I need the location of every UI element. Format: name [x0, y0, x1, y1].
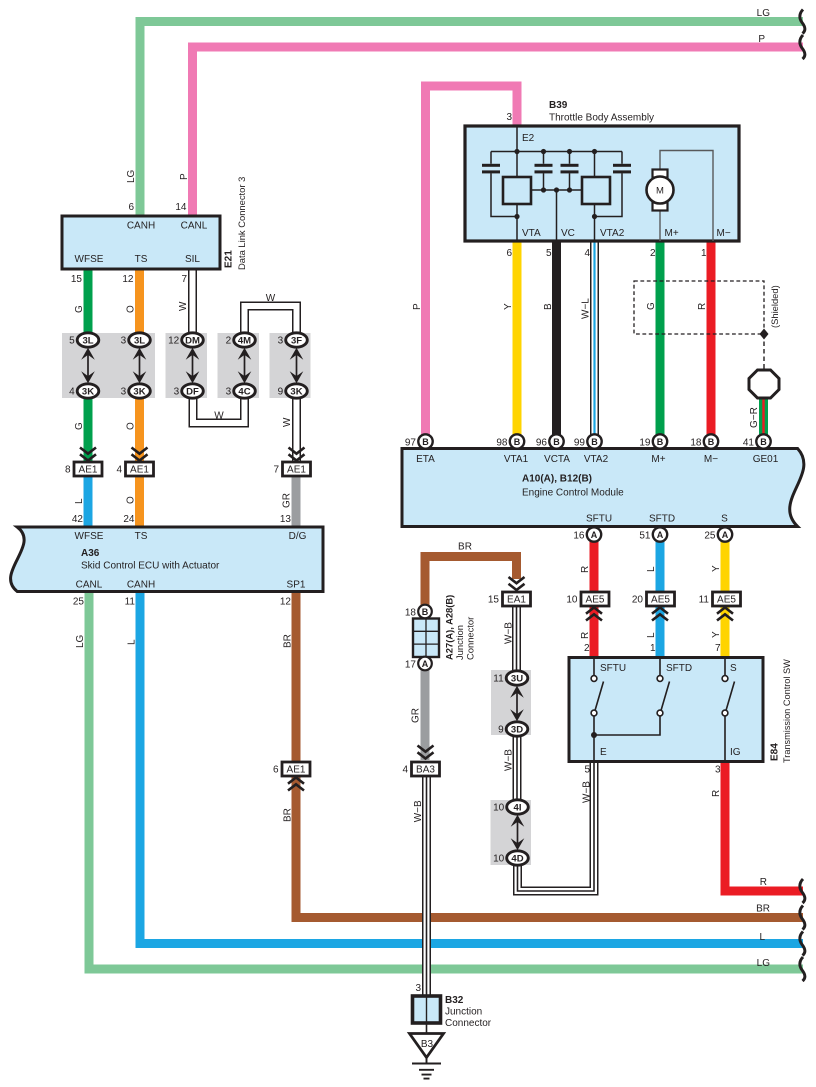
svg-text:AE5: AE5 [586, 595, 605, 606]
connector 5 3L [77, 333, 99, 347]
svg-text:6: 6 [273, 765, 279, 776]
wire L ECM SFTD to AE5 [656, 534, 665, 593]
svg-text:R: R [580, 566, 591, 573]
break mark LG top [800, 10, 805, 34]
svg-text:12: 12 [168, 336, 180, 347]
svg-text:TS: TS [135, 531, 148, 542]
svg-text:SP1: SP1 [287, 580, 306, 591]
svg-text:Throttle Body Assembly: Throttle Body Assembly [549, 113, 654, 124]
svg-text:18: 18 [405, 608, 417, 619]
wire L A36 CANH to right edge [140, 591, 803, 944]
node dot E [593, 735, 595, 761]
svg-text:M+: M+ [651, 454, 665, 465]
connector 3 3F [286, 333, 308, 347]
svg-text:Y: Y [711, 631, 722, 638]
svg-text:3K: 3K [133, 386, 145, 397]
svg-text:M−: M− [704, 454, 718, 465]
internal wire E2 bus [491, 126, 622, 241]
wire W 3K to AE1 [292, 391, 301, 461]
pair arrows 3L-3K [81, 348, 95, 384]
svg-text:1: 1 [701, 248, 707, 259]
wire Y ECM S to AE5 [721, 534, 730, 593]
svg-text:VTA1: VTA1 [504, 454, 529, 465]
wire W E21 SIL to DM [188, 267, 197, 340]
svg-text:LG: LG [757, 958, 771, 969]
wire R ECM SFTU to AE5 [590, 534, 599, 593]
svg-text:Connector: Connector [445, 1018, 492, 1029]
svg-text:LG: LG [757, 8, 771, 19]
connector 3 3L [129, 333, 151, 347]
connector 10 AE5 [581, 592, 609, 606]
svg-text:4C: 4C [238, 386, 250, 397]
svg-text:2: 2 [650, 248, 656, 259]
ECU A36 Skid Control ECU with Actuator [11, 527, 323, 592]
svg-text:4: 4 [69, 387, 75, 398]
wire LG from E21 CANH to right edge [140, 22, 803, 217]
wire B32 to ground triangle [426, 1023, 428, 1034]
svg-text:5: 5 [69, 336, 75, 347]
shield dashed drop wire [763, 334, 765, 370]
chevron into AE1 SIL [289, 448, 305, 461]
svg-text:S: S [730, 663, 737, 674]
wire P from ECM ETA to B39 E2 [426, 86, 518, 444]
svg-text:R: R [760, 877, 767, 888]
capacitor C4 [613, 164, 631, 167]
svg-text:CANH: CANH [127, 580, 155, 591]
wire BR junction connector B to EA1 [425, 557, 517, 607]
svg-text:3U: 3U [511, 673, 523, 684]
capacitor C3 [561, 164, 579, 167]
wire G 3K to AE1 [84, 391, 93, 461]
connector 7 AE1 [283, 462, 311, 476]
connector 4 3K [77, 384, 99, 398]
connector pair shading 3U/3D [491, 670, 531, 735]
svg-text:3K: 3K [290, 386, 302, 397]
svg-text:96: 96 [536, 437, 548, 448]
svg-text:3D: 3D [511, 724, 523, 735]
svg-text:DF: DF [186, 386, 199, 397]
svg-text:6: 6 [128, 202, 134, 213]
connector 4 AE1 [126, 462, 154, 476]
svg-text:VC: VC [561, 228, 575, 239]
connector pair shading 4M/4C [218, 333, 260, 398]
wire B B39 VC to ECM VCTA [552, 241, 561, 444]
svg-text:B: B [422, 607, 429, 617]
svg-text:Y: Y [503, 303, 514, 310]
svg-text:IG: IG [730, 747, 741, 758]
svg-text:SFTD: SFTD [649, 514, 675, 525]
svg-text:20: 20 [632, 595, 644, 606]
shield ground octagon [749, 370, 779, 398]
svg-text:BR: BR [283, 634, 294, 648]
wire W DF to 4C [193, 391, 245, 423]
svg-text:Connector: Connector [465, 617, 476, 660]
svg-text:12: 12 [280, 597, 292, 608]
svg-text:7: 7 [273, 465, 279, 476]
svg-text:4: 4 [584, 248, 590, 259]
svg-text:G: G [646, 302, 657, 310]
ECM pin 19 B M+ [653, 434, 667, 448]
svg-text:4: 4 [402, 765, 408, 776]
svg-text:A27(A), A28(B): A27(A), A28(B) [444, 595, 455, 660]
svg-text:AE1: AE1 [287, 765, 306, 776]
svg-text:O: O [126, 305, 137, 313]
svg-text:14: 14 [175, 202, 187, 213]
break mark BR [800, 906, 805, 930]
svg-text:Engine Control Module: Engine Control Module [522, 488, 624, 499]
svg-text:3: 3 [121, 336, 127, 347]
pair arrows 3U-3D [510, 686, 524, 722]
svg-text:W−B: W−B [504, 749, 515, 771]
svg-text:E: E [600, 747, 607, 758]
connector 2 4M [234, 333, 256, 347]
svg-text:10: 10 [493, 803, 505, 814]
svg-text:Skid Control ECU with Actuator: Skid Control ECU with Actuator [81, 561, 220, 572]
svg-text:GR: GR [411, 708, 422, 723]
ECM pin 18 B M- [704, 434, 718, 448]
svg-text:SFTU: SFTU [586, 514, 612, 525]
wire G B39 M+ to ECM M+ [656, 241, 665, 444]
switch E84 Transmission Control SW [569, 658, 763, 762]
connector 10 4D [507, 851, 529, 865]
svg-text:AE1: AE1 [287, 465, 306, 476]
svg-text:10: 10 [566, 595, 578, 606]
svg-text:E2: E2 [522, 133, 535, 144]
svg-text:9: 9 [498, 725, 504, 736]
svg-text:Y: Y [711, 565, 722, 572]
svg-text:W: W [266, 293, 276, 304]
svg-text:VTA2: VTA2 [600, 228, 625, 239]
shield node diamond [760, 329, 769, 340]
svg-text:LG: LG [75, 634, 86, 648]
pair arrows 4M-4C [238, 348, 252, 384]
svg-text:R: R [697, 303, 708, 310]
node dot VTA [514, 214, 519, 219]
ECM pin 99 B VTA2 [587, 434, 601, 448]
svg-text:VCTA: VCTA [544, 454, 570, 465]
svg-text:WFSE: WFSE [75, 531, 104, 542]
node dots on mid bus [541, 187, 546, 192]
junction connector pin 18 B [418, 605, 432, 619]
svg-text:BR: BR [283, 808, 294, 822]
wire O E21 TS to 3L [135, 267, 144, 340]
svg-text:3: 3 [415, 983, 421, 994]
svg-text:3: 3 [121, 387, 127, 398]
ECM pin 51 A SFTD [653, 527, 667, 541]
wire LG A36 CANL to right edge [89, 591, 803, 969]
connector 8 AE1 [74, 462, 102, 476]
svg-text:P: P [758, 34, 765, 45]
pair arrows DM-DF [186, 348, 200, 384]
svg-text:B: B [543, 303, 554, 310]
wire R E84 IG to right edge [725, 761, 803, 891]
wire O AE1 to A36 TS [135, 470, 144, 528]
svg-text:CANH: CANH [127, 221, 155, 232]
svg-text:BA3: BA3 [416, 765, 435, 776]
svg-text:25: 25 [73, 597, 85, 608]
svg-text:CANL: CANL [76, 580, 103, 591]
connector 20 AE5 [647, 592, 675, 606]
motor M wiring [660, 151, 713, 242]
svg-text:A: A [591, 530, 598, 540]
svg-text:BR: BR [458, 542, 472, 553]
capacitor C2 [535, 164, 553, 167]
switch S [725, 659, 735, 761]
svg-text:BR: BR [756, 904, 770, 915]
wire GR junction connector A to BA3 [421, 669, 430, 760]
svg-text:O: O [126, 496, 137, 504]
svg-text:10: 10 [493, 854, 505, 865]
chevron into AE1 SP1 [288, 778, 304, 791]
connector 10 4I [507, 800, 529, 814]
connector 3 4C [234, 384, 256, 398]
svg-text:4D: 4D [511, 853, 523, 864]
wire W-B BA3 to B32 [422, 776, 431, 996]
svg-text:E21: E21 [224, 250, 235, 268]
break mark L [800, 932, 805, 956]
ECM pin 25 A S [718, 527, 732, 541]
ECM pin 41 B GE01 [756, 434, 770, 448]
svg-text:B: B [591, 437, 598, 447]
wire W-L B39 VTA2 to ECM VTA2 [590, 241, 599, 444]
svg-text:AE5: AE5 [651, 595, 670, 606]
svg-text:M−: M− [717, 228, 731, 239]
wire Y B39 VTA to ECM VTA1 [513, 241, 522, 444]
svg-text:3F: 3F [291, 335, 302, 346]
svg-text:GR: GR [282, 493, 293, 508]
svg-text:WFSE: WFSE [75, 254, 104, 265]
svg-text:3L: 3L [82, 335, 93, 346]
svg-text:41: 41 [743, 437, 755, 448]
connector pair shading DM/DF [166, 333, 208, 398]
svg-text:B: B [553, 437, 560, 447]
wire W-B 4D to E84 E [518, 761, 595, 891]
svg-text:8: 8 [65, 465, 71, 476]
wire BR AE1 to right edge [296, 776, 803, 918]
svg-text:A10(A), B12(B): A10(A), B12(B) [522, 474, 592, 485]
svg-text:B: B [760, 437, 767, 447]
wire W-B EA1 to 3U [512, 605, 521, 678]
assembly B39 Throttle Body Assembly [465, 126, 739, 241]
connector 12 DM [182, 333, 204, 347]
svg-text:97: 97 [405, 437, 417, 448]
svg-text:W−B: W−B [413, 800, 424, 822]
connector pair shading 4I/4D [491, 800, 532, 865]
module A10(A) B12(B) Engine Control Module [402, 449, 804, 527]
svg-text:B: B [422, 437, 429, 447]
chevron into AE5 SFTU [586, 608, 602, 621]
svg-text:EA1: EA1 [507, 595, 526, 606]
ground triangle B3 [410, 1034, 444, 1058]
svg-text:5: 5 [584, 765, 590, 776]
svg-text:99: 99 [574, 437, 586, 448]
ECM pin 96 B VCTA [549, 434, 563, 448]
wire BR A36 SP1 to AE1 [292, 591, 301, 761]
svg-text:A: A [722, 530, 729, 540]
connector E21 Data Link Connector 3 [62, 216, 220, 269]
svg-text:W−L: W−L [581, 298, 592, 319]
svg-text:B: B [514, 437, 521, 447]
svg-text:3: 3 [226, 387, 232, 398]
svg-text:7: 7 [181, 274, 187, 285]
connector 3 DF [182, 384, 204, 398]
svg-text:Data Link Connector 3: Data Link Connector 3 [236, 177, 247, 270]
svg-text:SFTD: SFTD [666, 663, 692, 674]
svg-text:3: 3 [506, 112, 512, 123]
junction connector B32 [413, 996, 441, 1023]
svg-text:Junction: Junction [454, 625, 465, 660]
svg-text:12: 12 [122, 274, 134, 285]
connector 9 3K [286, 384, 308, 398]
svg-text:ETA: ETA [416, 454, 435, 465]
wire P from E21 CANL to right edge [193, 47, 804, 216]
junction connector pin 17 A [418, 657, 432, 671]
svg-text:GE01: GE01 [753, 454, 779, 465]
connector 11 AE5 [713, 592, 741, 606]
svg-text:24: 24 [123, 514, 135, 525]
chevron into AE1 WFSE [80, 448, 96, 461]
chevron into AE5 S [717, 608, 733, 621]
svg-text:AE1: AE1 [130, 465, 149, 476]
svg-text:Transmission Control SW: Transmission Control SW [782, 659, 792, 763]
svg-text:D/G: D/G [289, 531, 307, 542]
svg-text:TS: TS [135, 254, 148, 265]
svg-text:A: A [657, 530, 664, 540]
svg-text:G: G [74, 422, 85, 430]
svg-text:B: B [657, 437, 664, 447]
svg-text:W: W [282, 417, 293, 427]
connector pair shading 3L/3K G and O [62, 333, 155, 398]
svg-text:G: G [74, 305, 85, 313]
connector 6 AE1 [282, 762, 310, 776]
svg-text:B: B [708, 437, 715, 447]
pair arrows 3F-3K [290, 348, 304, 384]
svg-text:W−B: W−B [504, 622, 515, 644]
svg-text:L: L [646, 566, 657, 572]
svg-text:98: 98 [496, 437, 508, 448]
svg-text:VTA2: VTA2 [584, 454, 609, 465]
svg-text:O: O [126, 422, 137, 430]
svg-text:3K: 3K [82, 386, 94, 397]
sensor element VTA2 [582, 177, 610, 204]
svg-text:15: 15 [71, 274, 83, 285]
wire O 3K to AE1 [135, 391, 144, 461]
wire R B39 M- to ECM M- [707, 241, 716, 444]
svg-text:VTA: VTA [522, 228, 541, 239]
pair arrows 4I-4D [511, 815, 525, 851]
svg-text:L: L [74, 498, 85, 504]
svg-text:L: L [646, 632, 657, 638]
svg-text:W: W [214, 411, 224, 422]
svg-text:16: 16 [573, 530, 585, 541]
svg-text:19: 19 [639, 437, 651, 448]
svg-text:LG: LG [126, 169, 137, 183]
wire GR AE1 to A36 D/G [292, 470, 301, 528]
svg-text:P: P [179, 173, 190, 180]
svg-text:9: 9 [278, 387, 284, 398]
chevron into BA3 [418, 746, 434, 759]
ECM pin 16 A SFTU [587, 527, 601, 541]
svg-text:A36: A36 [81, 548, 100, 559]
svg-text:M+: M+ [665, 228, 679, 239]
svg-text:3: 3 [715, 765, 721, 776]
svg-text:13: 13 [280, 514, 292, 525]
svg-text:7: 7 [715, 643, 721, 654]
svg-text:11: 11 [699, 595, 710, 606]
motor M [653, 170, 668, 178]
chevron into AE5 SFTD [652, 608, 668, 621]
svg-text:4: 4 [116, 465, 122, 476]
switch SFTD [594, 659, 670, 735]
connector 15 EA1 [503, 592, 531, 606]
connector 4 BA3 [412, 762, 440, 776]
ECM pin 97 B ETA [418, 434, 432, 448]
svg-text:51: 51 [639, 530, 651, 541]
svg-text:DM: DM [185, 335, 200, 346]
svg-text:L: L [759, 932, 765, 943]
svg-text:4I: 4I [514, 802, 522, 813]
svg-text:42: 42 [72, 514, 84, 525]
chevron into EA1 [509, 577, 525, 590]
wire W 4M to 3F [245, 306, 297, 340]
svg-text:E84: E84 [770, 743, 781, 761]
pair arrows 3L-3K orange [133, 348, 147, 384]
svg-text:M: M [656, 186, 664, 197]
node dot VTA2 [592, 214, 597, 219]
svg-text:R: R [580, 632, 591, 639]
svg-text:CANL: CANL [181, 221, 208, 232]
svg-text:3: 3 [174, 387, 180, 398]
svg-text:25: 25 [704, 530, 716, 541]
switch SFTU [594, 659, 604, 735]
svg-text:B39: B39 [549, 100, 568, 111]
sensor element VTA [503, 177, 531, 204]
svg-text:SFTU: SFTU [600, 663, 626, 674]
connector 11 3U [506, 671, 528, 685]
svg-text:1: 1 [650, 643, 656, 654]
svg-text:W−B: W−B [582, 781, 593, 803]
svg-text:B3: B3 [421, 1039, 434, 1050]
svg-text:11: 11 [493, 674, 504, 685]
svg-text:18: 18 [690, 437, 702, 448]
svg-text:W: W [178, 301, 189, 311]
svg-text:(Shielded): (Shielded) [769, 285, 780, 328]
shield dashed box [634, 281, 764, 334]
node dots on E2 bus [514, 149, 519, 154]
svg-text:AE1: AE1 [79, 465, 98, 476]
wire G E21 WFSE to 3L [84, 267, 93, 340]
svg-text:4M: 4M [238, 335, 251, 346]
svg-text:2: 2 [584, 643, 590, 654]
break mark P top [800, 35, 805, 59]
break mark R [800, 879, 805, 903]
wire R AE5 to E84 SFTU [590, 605, 599, 659]
svg-text:R: R [711, 790, 722, 797]
wire W-B 3D to 4I [513, 729, 522, 807]
svg-text:11: 11 [125, 597, 136, 608]
svg-text:2: 2 [226, 336, 232, 347]
chevron into AE1 TS [132, 448, 148, 461]
svg-text:3L: 3L [134, 335, 145, 346]
svg-text:AE5: AE5 [717, 595, 736, 606]
svg-text:A: A [422, 659, 429, 669]
svg-text:P: P [412, 303, 423, 310]
connector 9 3D [506, 722, 528, 736]
svg-text:3: 3 [278, 336, 284, 347]
svg-text:6: 6 [506, 248, 512, 259]
svg-text:S: S [721, 514, 728, 525]
svg-text:L: L [127, 639, 138, 645]
